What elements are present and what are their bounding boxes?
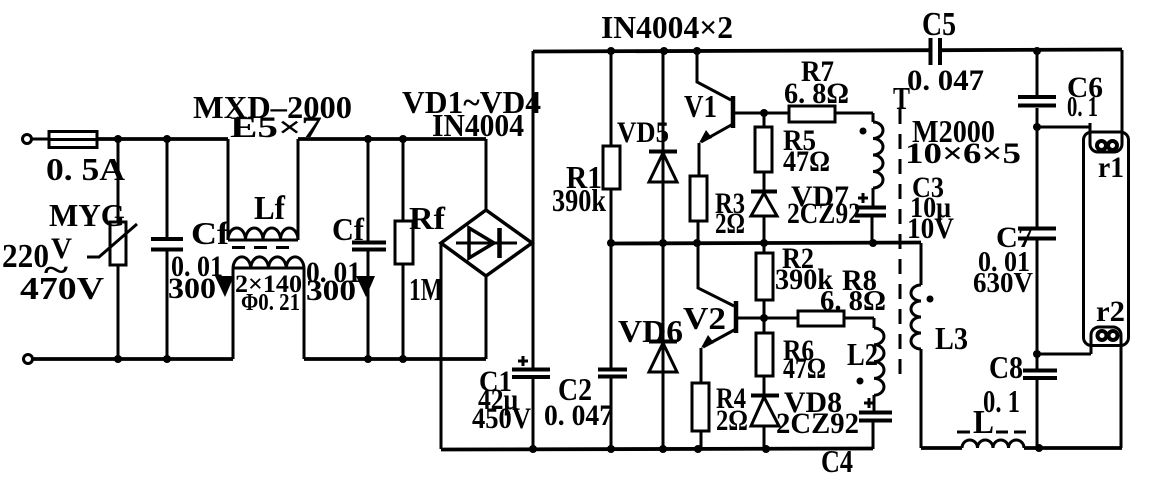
svg-text:C5: C5 [922,6,956,43]
bridge rectifier VD1-VD4 [441,210,532,276]
diode VD6 [618,243,683,449]
wire Lf to bridge top [298,137,486,141]
transformer T winding L3 (output) [911,243,968,448]
svg-text:6. 8Ω: 6. 8Ω [784,77,849,110]
wire bottom ground rail [441,449,873,450]
wire right branch riser [1036,51,1039,448]
svg-text:0. 5A: 0. 5A [46,151,125,187]
junction ground rail at C1 [529,445,537,453]
resistor R5 47ohm [755,113,830,190]
svg-text:Φ0. 21: Φ0. 21 [241,290,300,316]
junction Rf bottom [399,355,407,363]
svg-text:6. 8Ω: 6. 8Ω [820,286,886,317]
svg-text:2Ω: 2Ω [715,207,745,240]
junction ground rail at VD8 [762,445,770,453]
svg-text:0. 1: 0. 1 [1067,92,1098,123]
junction mid rail at VD7/R2 [760,239,768,247]
junction mid rail at C3 [869,239,877,247]
junction Rf top [399,135,407,143]
svg-text:T: T [893,80,910,116]
svg-text:Cf: Cf [332,211,364,247]
svg-text:0. 047: 0. 047 [907,64,984,97]
polarity dot L1 [860,128,867,135]
svg-text:630V: 630V [973,268,1033,299]
capacitor C1 42u/450V electrolytic [472,356,550,449]
capacitor C8 0.1 [983,349,1057,419]
label transformer T M2000 10x6x5 [893,80,1021,170]
resistor R7 6.8ohm [764,55,873,122]
svg-text:2Ω: 2Ω [716,404,748,437]
fluorescent lamp tube [1084,132,1129,346]
polarity dot L3 [927,296,934,303]
junction top rail at C6 branch [1033,47,1041,55]
junction MYG bottom [114,355,122,363]
svg-text:IN4004×2: IN4004×2 [601,9,733,45]
svg-text:MYG: MYG [49,197,125,233]
capacitor C2 0.047 [544,243,627,449]
svg-text:0. 047: 0. 047 [544,399,613,432]
junction MYG top [114,135,122,143]
junction top rail at R1 [607,47,615,55]
svg-text:r2: r2 [1096,295,1125,328]
capacitor C5 0.047 [907,6,984,97]
lamp filament r2 [1091,295,1125,448]
diode VD5 [617,51,677,243]
resistor R4 2ohm (V2 emitter) [692,382,748,449]
junction Cf2 bottom [364,355,372,363]
svg-text:47Ω: 47Ω [783,352,826,385]
diode VD7 2CZ92 [751,180,861,243]
capacitor Cf 0.01/300V (second) [306,139,386,359]
svg-text:2CZ92: 2CZ92 [787,197,861,230]
svg-text:C4: C4 [821,443,853,479]
svg-text:470V: 470V [20,270,104,306]
polarity dot L2 [857,378,864,385]
fuse FU 0.5A [46,132,125,188]
junction ground rail at R4 [694,445,702,453]
wire C6 node to lamp filament r1 [1037,126,1090,129]
svg-text:390k: 390k [552,182,606,218]
svg-text:r1: r1 [1098,151,1124,184]
input terminal bottom (neutral) [24,355,33,364]
svg-text:Lf: Lf [254,190,286,227]
junction Cf2 top [364,135,372,143]
wire mid rail (emitter bus) [611,243,921,244]
junction C8/r2 node [1033,350,1041,358]
transformer T core (dashed) [899,109,902,384]
wire bridge positive output riser [532,51,535,368]
svg-text:IN4004: IN4004 [432,107,524,143]
junction mid rail at R1 [607,239,615,247]
label 220V~ mains input [2,232,72,289]
junction Cf1 top [163,135,171,143]
svg-text:1M: 1M [409,271,443,307]
junction bottom right at C8 [1035,444,1043,452]
wire AC input to bridge bottom vertex [485,276,488,359]
resistor Rf 1M [395,139,445,359]
junction C6/r1 node [1033,123,1041,131]
label VD1~VD4 IN4004 [402,84,541,143]
svg-text:Cf: Cf [191,215,229,251]
resistor R6 47ohm [756,318,826,394]
capacitor C7 0.01/630V [973,221,1056,299]
wire fuse to Lf top [97,137,228,141]
resistor R8 6.8ohm [764,264,886,326]
svg-text:0. 1: 0. 1 [983,383,1020,419]
resistor R1 390k [552,51,620,243]
svg-text:VD6: VD6 [618,313,683,349]
capacitor Cf 0.01/300V (first) [151,139,234,359]
junction mid rail at R3/V2 collector [693,239,701,247]
svg-text:L2: L2 [847,336,878,372]
svg-text:47Ω: 47Ω [783,145,830,178]
svg-text:450V: 450V [472,402,531,435]
resistor R2 390k [756,242,833,318]
svg-text:L3: L3 [935,320,968,356]
wire AC input to bridge top vertex [485,139,488,210]
junction ground rail at VD6 [659,445,667,453]
svg-text:VD5: VD5 [617,116,669,149]
wire Lf to bridge bottom [304,357,486,361]
inductor Lf common-mode filter choke 2x140 turns 0.21mm [228,139,304,359]
junction V1 base node [760,109,768,117]
wire bottom-left [33,357,233,361]
svg-text:C8: C8 [989,349,1023,385]
input terminal top (live) [23,135,32,144]
label MXD-2000 E5x7 core type [193,89,352,144]
wire C8 node to lamp filament r2 [1037,353,1091,356]
svg-text:2CZ92: 2CZ92 [776,407,859,440]
diode VD8 2CZ92 [751,386,859,449]
capacitor C6 0.1 [1018,71,1103,123]
wire bridge negative output to ground rail [440,243,443,449]
capacitor C3 10u/10V electrolytic [855,171,954,245]
lamp filament r1 [1090,50,1124,184]
junction ground rail at C2 [607,445,615,453]
junction top rail at V1 collector [693,47,701,55]
junction V2 base node [760,314,768,322]
svg-text:300: 300 [168,272,216,305]
inductor L (output choke) [921,404,1122,448]
wire top supply rail [533,50,1122,52]
transformer T winding L2 (V2 feedback) [847,318,884,411]
svg-text:10×6×5: 10×6×5 [905,137,1021,170]
capacitor C4 electrolytic [821,398,892,479]
junction top rail at VD5 [660,47,668,55]
transformer T winding L1 (V1 feedback) [873,113,883,206]
junction Cf1 bottom [163,355,171,363]
svg-text:300: 300 [306,274,356,307]
svg-text:10V: 10V [907,212,954,245]
svg-text:V2: V2 [683,300,726,336]
varistor RV MYG 470V [20,139,137,359]
transistor V1 [684,51,764,176]
wire from top terminal to fuse [32,138,49,141]
resistor R3 2ohm (V1 emitter) [690,176,745,243]
transistor V2 [683,243,764,383]
svg-text:Rf: Rf [409,200,445,236]
junction mid rail at VD5/VD6 [659,239,667,247]
svg-text:V1: V1 [684,88,717,124]
